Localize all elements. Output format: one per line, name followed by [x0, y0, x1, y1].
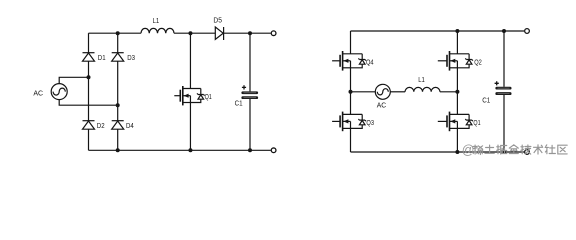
- wire C1 bottom lead: [249, 99, 251, 150]
- wire bottom rail: [89, 149, 271, 151]
- transistor Q4: [332, 51, 374, 71]
- svg-text:D4: D4: [126, 123, 134, 130]
- wire right bridge leg lower: [117, 129, 119, 150]
- wire AC top lead: [59, 77, 88, 83]
- wire Q4 drain: [350, 31, 352, 54]
- transistor Q2: [438, 51, 482, 71]
- svg-text:@: @: [462, 143, 475, 157]
- wire C1 bottom lead (right): [503, 95, 505, 152]
- junction dot C1 bottom rail: [502, 150, 506, 154]
- junction dot Q2 top rail: [455, 29, 459, 33]
- svg-text:AC: AC: [377, 103, 386, 110]
- wire right bridge leg middle: [117, 61, 119, 120]
- wire bottom rail (right circuit): [351, 151, 525, 153]
- diode D5: [213, 18, 223, 40]
- wire AC bottom lead: [59, 100, 117, 106]
- junction dot Q1-bottom rail: [188, 148, 192, 152]
- wire Q1 source: [189, 103, 191, 151]
- svg-text:C1: C1: [482, 98, 490, 105]
- junction dot C1 top rail: [502, 29, 506, 33]
- wire top rail right segment: [224, 32, 271, 34]
- wire mid rail AC to L1: [390, 91, 405, 93]
- junction dot right leg top: [116, 31, 120, 35]
- diode D3: [112, 53, 135, 62]
- svg-text:D3: D3: [127, 55, 135, 62]
- junction dot C1-bottom rail: [248, 148, 252, 152]
- inductor L1 (right): [405, 77, 440, 92]
- terminal output + (right circuit): [525, 29, 530, 34]
- wire Q4 source to mid rail: [350, 68, 352, 92]
- transistor Q3: [332, 112, 374, 132]
- svg-text:Q4: Q4: [366, 59, 374, 66]
- junction dot D5-C1: [248, 31, 252, 35]
- wire Q1 source to bottom rail: [456, 128, 458, 152]
- junction dot Q1 bottom rail: [455, 150, 459, 154]
- wire top rail left segment: [89, 32, 142, 34]
- wire top rail (right circuit): [351, 30, 525, 32]
- junction dot mid rail left leg: [349, 90, 353, 94]
- wire Q2 source to mid rail: [456, 68, 458, 92]
- wire left bridge leg upper: [88, 33, 90, 53]
- junction dot right leg bottom: [116, 148, 120, 152]
- wire Q1 drain: [189, 33, 191, 88]
- wire mid rail L1 to right leg: [440, 91, 458, 93]
- wire left bridge leg middle: [88, 61, 90, 120]
- capacitor C1 (left): [235, 85, 259, 107]
- junction dot mid rail right leg: [455, 90, 459, 94]
- wire Q3 drain from mid rail: [350, 92, 352, 115]
- wire Q2 drain: [456, 31, 458, 54]
- wire C1 top lead: [249, 33, 251, 91]
- terminal output - (right circuit): [525, 150, 530, 155]
- wire Q1 drain from mid rail: [456, 92, 458, 115]
- capacitor C1 (right): [482, 81, 511, 104]
- wire Q3 source to bottom rail: [350, 128, 352, 152]
- svg-text:L1: L1: [153, 18, 160, 25]
- wire C1 top lead (right): [503, 31, 505, 87]
- wire mid rail left segment: [351, 91, 376, 93]
- junction dot AC-right leg: [116, 103, 120, 107]
- svg-text:AC: AC: [33, 91, 43, 98]
- wire left bridge leg lower: [88, 129, 90, 150]
- junction dot L1-Q1: [188, 31, 192, 35]
- diode D2: [83, 121, 105, 130]
- ac source AC (left): [33, 84, 67, 100]
- svg-text:C1: C1: [235, 101, 243, 108]
- svg-text:D1: D1: [98, 55, 106, 62]
- inductor L1: [141, 18, 174, 33]
- svg-text:L1: L1: [418, 77, 425, 84]
- wire right bridge leg upper: [117, 33, 119, 53]
- transistor Q1 (right circuit): [438, 112, 481, 132]
- svg-text:Q1: Q1: [205, 94, 212, 101]
- svg-text:Q2: Q2: [474, 59, 482, 66]
- diode D1: [83, 53, 106, 62]
- svg-text:D2: D2: [97, 123, 105, 130]
- terminal output - (bottom right): [271, 148, 276, 153]
- junction dot AC-left leg: [87, 75, 91, 79]
- wire top rail mid segment: [174, 32, 215, 34]
- watermark: [462, 143, 567, 157]
- ac source AC (right): [375, 84, 390, 109]
- svg-text:Q1: Q1: [473, 120, 480, 127]
- svg-text:D5: D5: [213, 18, 222, 25]
- diode D4: [112, 121, 134, 130]
- svg-text:Q3: Q3: [366, 120, 374, 127]
- terminal output + (top right): [271, 31, 276, 36]
- transistor Q1 (left circuit): [174, 86, 212, 105]
